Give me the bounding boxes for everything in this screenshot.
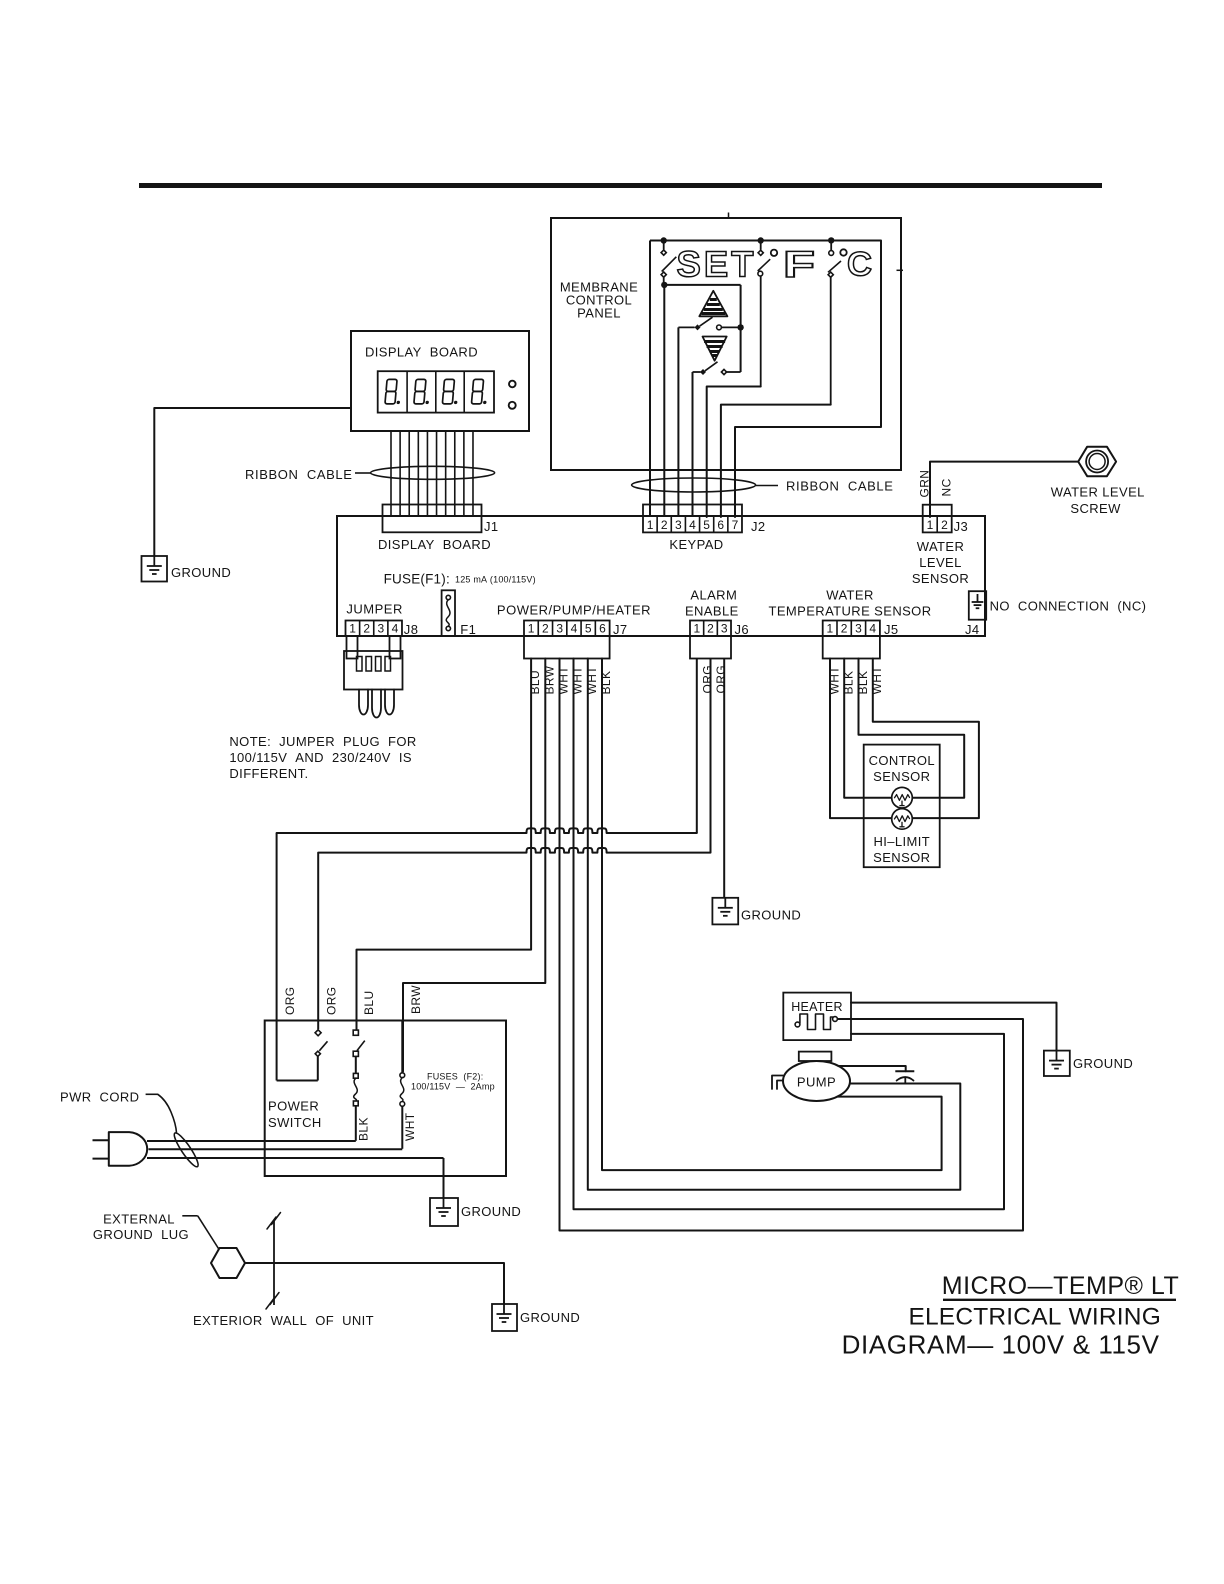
note text jumper plug — [229, 734, 416, 781]
svg-text:6: 6 — [599, 622, 606, 636]
svg-text:ORG: ORG — [714, 665, 728, 694]
svg-text:TEMPERATURE SENSOR: TEMPERATURE SENSOR — [769, 604, 932, 619]
switch S1a (ORG) — [277, 1030, 328, 1081]
wire cord BLK — [147, 1140, 356, 1142]
label FUSES (F2) value — [411, 1072, 495, 1092]
wire keypad pin2 — [663, 285, 665, 517]
svg-text:WATER: WATER — [917, 539, 965, 554]
svg-text:GROUND: GROUND — [1073, 1056, 1133, 1071]
button DOWN arrow — [703, 337, 727, 361]
wire display board to ground — [154, 408, 351, 556]
arrows inner bus — [664, 284, 740, 286]
svg-text:1: 1 — [927, 518, 934, 532]
svg-text:BRW: BRW — [542, 665, 556, 694]
svg-text:BLK: BLK — [842, 671, 856, 695]
wire J5-4 WHT to hi-limit sensor — [873, 659, 979, 819]
svg-text:ENABLE: ENABLE — [685, 604, 739, 619]
svg-text:1: 1 — [647, 518, 654, 532]
wire keypad pin1 (bus left leg) — [649, 241, 651, 518]
junction arrows common — [737, 324, 743, 330]
wire keypad pin7 (bus right leg) — [735, 241, 881, 518]
svg-text:WHT: WHT — [403, 1112, 417, 1141]
connector J7 POWER/PUMP/HEATER — [524, 621, 628, 659]
svg-text:3: 3 — [721, 622, 728, 636]
svg-text:3: 3 — [556, 622, 563, 636]
label HI-LIMIT SENSOR — [873, 834, 930, 865]
junction bus-C — [828, 237, 834, 243]
wire cord GND — [147, 1157, 444, 1159]
wire J7-3 WHT to heater — [560, 659, 1024, 1231]
svg-text:HI–LIMIT: HI–LIMIT — [873, 834, 930, 849]
svg-text:ALARM: ALARM — [690, 588, 737, 603]
svg-text:1: 1 — [827, 622, 834, 636]
wire J5-3 BLK to control sensor — [859, 659, 965, 798]
ground G5 (heater) — [1044, 1051, 1070, 1076]
membrane control panel enclosure — [551, 218, 901, 470]
label POWER SWITCH — [268, 1099, 322, 1131]
svg-text:1: 1 — [693, 622, 700, 636]
svg-text:GROUND: GROUND — [741, 908, 801, 923]
svg-text:DIFFERENT.: DIFFERENT. — [229, 766, 308, 781]
svg-text:7: 7 — [732, 518, 739, 532]
svg-text:LEVEL: LEVEL — [919, 555, 961, 570]
label CONTROL SENSOR — [869, 753, 935, 784]
svg-text:5: 5 — [585, 622, 592, 636]
svg-text:ORG: ORG — [283, 986, 297, 1015]
svg-text:SENSOR: SENSOR — [873, 850, 930, 865]
switch SET — [661, 241, 676, 285]
svg-text:WATER LEVEL: WATER LEVEL — [1051, 485, 1145, 500]
wire lug to ground G4 — [245, 1263, 504, 1304]
wire J7-4 WHT to heater — [574, 659, 1005, 1210]
label MEMBRANE CONTROL PANEL — [560, 280, 638, 321]
svg-text:CONTROL: CONTROL — [869, 753, 935, 768]
svg-text:2: 2 — [941, 518, 948, 532]
label WATER LEVEL SCREW — [1051, 485, 1145, 516]
fuse F1 — [442, 590, 455, 636]
svg-text:DISPLAY BOARD: DISPLAY BOARD — [378, 537, 491, 552]
connector J8 JUMPER — [346, 621, 419, 638]
svg-text:WHT: WHT — [870, 666, 884, 695]
ribbon cable (display) — [371, 466, 495, 479]
svg-text:WHT: WHT — [585, 666, 599, 695]
water level screw — [1078, 447, 1116, 477]
svg-text:4: 4 — [571, 622, 578, 636]
wire J7-6 BLK to pump — [602, 659, 942, 1171]
svg-text:2: 2 — [661, 518, 668, 532]
wire keypad pin3 — [677, 327, 679, 517]
switch DOWN — [693, 362, 741, 375]
svg-text:3: 3 — [675, 518, 682, 532]
capacitor C1 (pump run) — [895, 1071, 914, 1083]
svg-text:SENSOR: SENSOR — [912, 571, 969, 586]
svg-text:C: C — [847, 246, 872, 284]
wire keypad pin5 — [707, 387, 761, 518]
wire J5-1 WHT to hi-limit sensor — [830, 659, 892, 819]
svg-text:FUSES (F2):: FUSES (F2): — [427, 1072, 483, 1082]
svg-text:NC: NC — [940, 478, 954, 496]
fuse F2a (BLK leg) — [353, 1073, 358, 1140]
keypad common bus (top) — [650, 240, 881, 242]
svg-text:SET: SET — [677, 244, 757, 285]
exterior wall line — [266, 1213, 281, 1310]
AC plug — [93, 1132, 148, 1166]
wire to ground G3 — [443, 1158, 445, 1198]
ribbon cable J1 wires — [391, 431, 473, 517]
svg-text:2: 2 — [707, 622, 714, 636]
svg-text:SENSOR: SENSOR — [873, 769, 930, 784]
junction SET-bus2 — [661, 282, 667, 288]
svg-text:EXTERIOR WALL OF UNIT: EXTERIOR WALL OF UNIT — [193, 1313, 374, 1328]
svg-text:PWR CORD: PWR CORD — [60, 1090, 139, 1105]
svg-text:BLK: BLK — [357, 1117, 371, 1141]
7-segment display U-DISP — [378, 371, 494, 412]
ribbon cable (keypad) — [632, 478, 756, 492]
cord sheath marker — [171, 1131, 201, 1170]
svg-text:SWITCH: SWITCH — [268, 1115, 322, 1130]
ground G1 (display board) — [142, 556, 168, 582]
svg-text:GROUND LUG: GROUND LUG — [93, 1227, 189, 1242]
connector J4 no-connection — [965, 591, 986, 637]
svg-text:4: 4 — [392, 622, 399, 636]
connector J2 KEYPAD — [643, 505, 766, 553]
wire cord WHT — [149, 1148, 403, 1150]
switch S1b (BLU) — [353, 1030, 365, 1073]
svg-text:WHT: WHT — [557, 666, 571, 695]
label RIBBON CABLE (keypad) — [756, 479, 894, 494]
svg-text:F: F — [783, 244, 815, 285]
thermistor RT2 hi-limit sensor — [892, 809, 913, 830]
connector J5 WATER TEMPERATURE SENSOR — [823, 621, 899, 659]
switch UP — [678, 317, 740, 330]
heater HR1 — [783, 993, 851, 1041]
svg-text:J3: J3 — [954, 519, 969, 534]
display board module — [351, 331, 529, 431]
svg-text:J8: J8 — [404, 622, 419, 637]
display indicator LEDs — [509, 381, 516, 388]
label RIBBON CABLE (display) — [245, 467, 371, 482]
svg-text:DIAGRAM— 100V & 115V: DIAGRAM— 100V & 115V — [842, 1330, 1160, 1360]
label PWR CORD — [60, 1090, 177, 1134]
switch F — [758, 241, 771, 387]
wire heater to ground G5 — [851, 1003, 1057, 1051]
main control board — [337, 516, 985, 636]
svg-text:PUMP: PUMP — [797, 1075, 836, 1090]
wire J3 pin1 to water level screw — [930, 462, 1078, 517]
thermistor RT1 control sensor — [892, 787, 913, 808]
ground G3 (power switch) — [430, 1198, 458, 1226]
svg-text:2: 2 — [363, 622, 370, 636]
svg-text:BRW: BRW — [409, 985, 423, 1014]
svg-text:POWER: POWER — [268, 1099, 319, 1114]
svg-text:PANEL: PANEL — [577, 306, 621, 321]
wire J6-3 to ground — [723, 659, 725, 898]
svg-text:RIBBON CABLE: RIBBON CABLE — [786, 479, 894, 494]
svg-text:WHT: WHT — [828, 666, 842, 695]
svg-text:NOTE: JUMPER PLUG FOR: NOTE: JUMPER PLUG FOR — [229, 734, 416, 749]
label WATER TEMPERATURE SENSOR — [769, 588, 932, 619]
jumper plug — [344, 636, 403, 718]
label FUSE(F1) value — [384, 572, 536, 587]
svg-text:J1: J1 — [484, 519, 499, 534]
wire pump to capacitor — [839, 1066, 906, 1071]
connector J1 DISPLAY BOARD — [378, 505, 499, 553]
label deg-C (button) — [840, 246, 872, 284]
junction bus-SET — [661, 237, 667, 243]
wire J6-2 ORG bus (with hops) — [318, 659, 710, 1030]
svg-text:ELECTRICAL WIRING: ELECTRICAL WIRING — [908, 1304, 1161, 1331]
svg-text:5: 5 — [703, 518, 710, 532]
svg-text:100/115V AND 230/240V IS: 100/115V AND 230/240V IS — [229, 750, 412, 765]
svg-text:J4: J4 — [965, 622, 980, 637]
wire J7-1 BLU — [357, 659, 532, 1030]
svg-text:HEATER: HEATER — [791, 1000, 843, 1014]
svg-text:4: 4 — [689, 518, 696, 532]
svg-text:BLU: BLU — [528, 670, 542, 695]
connector J6 ALARM ENABLE — [690, 621, 749, 659]
svg-text:FUSE(F1):: FUSE(F1): — [384, 572, 450, 587]
button UP arrow — [699, 291, 727, 317]
svg-text:3: 3 — [377, 622, 384, 636]
svg-text:MICRO—TEMP® LT: MICRO—TEMP® LT — [942, 1272, 1179, 1300]
label ALARM ENABLE — [685, 588, 739, 619]
ground G4 (exterior) — [492, 1304, 517, 1331]
junction bus-F — [758, 237, 764, 243]
top border rule — [139, 183, 1102, 188]
wire J7-5 WHT to pump — [588, 659, 961, 1190]
svg-text:F1: F1 — [460, 622, 476, 637]
svg-text:KEYPAD: KEYPAD — [669, 537, 723, 552]
wire keypad pin4 — [692, 372, 694, 517]
switch C — [828, 240, 841, 404]
fuse F2b (WHT leg) — [400, 1021, 405, 1149]
title MICRO-TEMP LT — [842, 1272, 1180, 1360]
svg-text:NO CONNECTION (NC): NO CONNECTION (NC) — [990, 599, 1147, 614]
svg-text:3: 3 — [855, 622, 862, 636]
power switch enclosure — [265, 1021, 506, 1177]
svg-text:1: 1 — [349, 622, 356, 636]
svg-text:JUMPER: JUMPER — [346, 602, 402, 617]
external ground lug (hex) — [211, 1248, 245, 1278]
svg-text:J6: J6 — [735, 622, 750, 637]
ground G2 (alarm enable) — [712, 898, 738, 925]
svg-text:J7: J7 — [613, 622, 628, 637]
svg-text:GROUND: GROUND — [520, 1310, 580, 1325]
wire J5-2 BLK to control sensor — [844, 659, 892, 798]
svg-text:4: 4 — [869, 622, 876, 636]
svg-text:SCREW: SCREW — [1070, 501, 1121, 516]
wire J6-1 ORG bus (with hops) — [277, 659, 697, 1081]
wire J7-2 BRW — [403, 659, 545, 1072]
wire keypad pin6 — [721, 405, 831, 517]
svg-text:WATER: WATER — [826, 588, 874, 603]
svg-text:GROUND: GROUND — [461, 1204, 521, 1219]
wire arrows common right leg — [740, 285, 742, 372]
svg-text:RIBBON CABLE: RIBBON CABLE — [245, 467, 353, 482]
label deg-F (button) — [771, 244, 815, 285]
temperature sensor assembly box — [864, 745, 940, 868]
svg-text:GROUND: GROUND — [171, 565, 231, 580]
svg-text:ORG: ORG — [701, 665, 715, 694]
svg-text:ORG: ORG — [325, 986, 339, 1015]
svg-text:125 mA (100/115V): 125 mA (100/115V) — [455, 575, 536, 585]
svg-text:J5: J5 — [884, 622, 899, 637]
svg-text:2: 2 — [542, 622, 549, 636]
svg-text:EXTERNAL: EXTERNAL — [103, 1212, 175, 1227]
svg-text:BLK: BLK — [856, 671, 870, 695]
svg-text:DISPLAY BOARD: DISPLAY BOARD — [365, 345, 478, 360]
svg-text:BLK: BLK — [599, 671, 613, 695]
connector J3 WATER LEVEL SENSOR — [912, 505, 969, 586]
svg-text:6: 6 — [717, 518, 724, 532]
svg-text:WHT: WHT — [571, 666, 585, 695]
svg-text:BLU: BLU — [362, 990, 376, 1015]
svg-text:100/115V — 2Amp: 100/115V — 2Amp — [411, 1082, 495, 1092]
svg-text:J2: J2 — [751, 519, 766, 534]
svg-text:POWER/PUMP/HEATER: POWER/PUMP/HEATER — [497, 603, 651, 618]
svg-text:2: 2 — [841, 622, 848, 636]
label EXTERNAL GROUND LUG — [93, 1212, 219, 1250]
svg-text:1: 1 — [528, 622, 535, 636]
pump M1 — [772, 1052, 850, 1101]
